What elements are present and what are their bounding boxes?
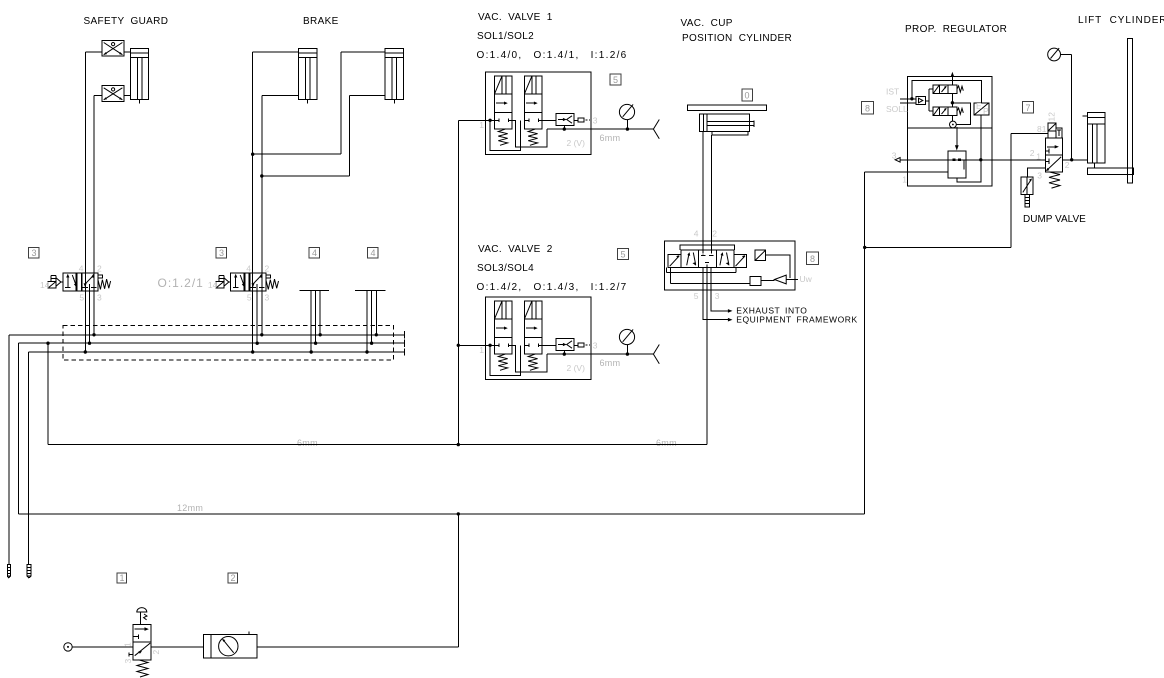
wire sensor to amplifier (766, 255, 790, 278)
hose break chevron (653, 120, 659, 139)
nozzle circle (950, 121, 957, 128)
pressure gauge (lift) (1048, 48, 1061, 61)
dump valve (variable restrictor) (1021, 177, 1033, 195)
exhaust arrow port 3 (895, 158, 900, 163)
valve right position arrows (720, 252, 729, 266)
svg-text:Uw: Uw (800, 274, 813, 284)
wire port 1 feed (458, 119, 494, 121)
signal amplifier triangle (774, 275, 786, 284)
wire bypass to valve B (490, 120, 521, 150)
wire 6mm branch line (48, 343, 707, 444)
signal converter square (750, 277, 761, 286)
wire safety guard port 4 (85, 52, 130, 352)
svg-text:3: 3 (1037, 170, 1042, 180)
svg-text:2: 2 (1065, 160, 1070, 170)
bus line 3 (bottom exhaust rail) (29, 348, 405, 355)
item box 7 (lift valve) (1023, 102, 1034, 114)
wire valve to lift cylinder (1063, 159, 1088, 161)
svg-text:3: 3 (123, 659, 133, 664)
flow control valve (safety guard top) (102, 40, 124, 56)
junction brake port4 (251, 153, 254, 156)
wire amplifier links (667, 268, 798, 284)
svg-text:5: 5 (79, 292, 84, 302)
wire IST input (900, 98, 916, 100)
wire pilot line to lift valve (865, 134, 1048, 248)
svg-text:O:1.4/0, O:1.4/1, I:1.2/6: O:1.4/0, O:1.4/1, I:1.2/6 (477, 50, 628, 61)
wire pilot to nozzle (952, 103, 970, 125)
pilot valve lower (933, 107, 963, 116)
junctions bus2 (46, 342, 373, 345)
wire E/P feedback loop (957, 115, 981, 182)
svg-text:O:1.2/1: O:1.2/1 (158, 276, 204, 290)
svg-text:1: 1 (120, 573, 125, 583)
svg-text:7: 7 (1026, 103, 1031, 113)
wire riser to vac valves (457, 120, 459, 444)
svg-text:2: 2 (231, 573, 236, 583)
svg-text:VAC. VALVE 2: VAC. VALVE 2 (478, 244, 553, 255)
wire bus1 left drop to silencer (8, 335, 10, 565)
svg-text:1: 1 (902, 174, 907, 184)
check throttle valve (542, 114, 578, 130)
svg-text:3: 3 (32, 248, 37, 258)
cylinder (brake right) (385, 48, 403, 103)
pilot supply bar (680, 245, 735, 250)
vacuum cup plate (688, 105, 767, 111)
junction brake port2 (260, 174, 263, 177)
wire brake port 2 branch (262, 96, 385, 335)
manifold dashed enclosure (63, 326, 394, 361)
wire port 1 to 6mm line (706, 268, 708, 445)
svg-text:SOLL: SOLL (886, 104, 908, 114)
port labels item1 (123, 642, 162, 664)
wire lower pilot down (951, 116, 953, 122)
wire amp to pilot valves (925, 89, 933, 111)
filter regulator unit (item 2) (204, 631, 257, 658)
svg-text:LIFT CYLINDER: LIFT CYLINDER (1078, 15, 1164, 26)
lift cylinder (1083, 113, 1106, 168)
wire between pilot valves (951, 94, 953, 108)
lift bracket (1088, 168, 1134, 175)
svg-text:6mm: 6mm (656, 438, 677, 448)
svg-text:SOL3/SOL4: SOL3/SOL4 (477, 263, 534, 274)
wire SOLL input (900, 102, 916, 104)
wire regulated output (900, 159, 1046, 161)
svg-text:4: 4 (246, 264, 251, 274)
bus line 1 (top exhaust rail) (9, 331, 405, 338)
svg-text:3: 3 (593, 115, 598, 125)
wire filter to supply riser (257, 514, 458, 647)
svg-text:1: 1 (123, 642, 133, 647)
svg-text:5: 5 (694, 291, 699, 301)
junction 6mm riser (457, 443, 460, 446)
junction pilot mid (951, 101, 954, 104)
svg-text:4: 4 (694, 228, 699, 238)
flow control valve (safety guard bottom) (102, 86, 124, 102)
wire safety guard port 2 (94, 96, 130, 335)
junction port 1 (488, 119, 491, 122)
svg-text:3: 3 (219, 248, 224, 258)
wire V2 port1 to bus2 (256, 284, 258, 343)
svg-text:2: 2 (97, 264, 102, 274)
silencer (right) (27, 564, 31, 578)
shutoff valve 3/2 (item 1) (129, 625, 151, 660)
svg-text:2: 2 (265, 264, 270, 274)
svg-text:8: 8 (865, 104, 870, 114)
lift valve 3/2 (item 7) (1046, 138, 1063, 172)
svg-text:E: E (976, 101, 982, 111)
item box 1 (117, 573, 127, 583)
svg-text:4: 4 (371, 248, 376, 258)
svg-text:IST: IST (886, 87, 899, 97)
svg-text:2: 2 (151, 650, 161, 655)
item box 2 (228, 573, 238, 583)
wire valve to filter regulator (151, 646, 203, 648)
svg-text:3: 3 (97, 292, 102, 302)
E/P converter square (974, 101, 989, 116)
junction lift feed (1070, 158, 1073, 161)
dump valve silencer (1025, 195, 1030, 207)
solenoid cartridge valve B (524, 76, 542, 146)
svg-text:8: 8 (810, 254, 815, 264)
item box 3 (safety guard valve) (29, 248, 40, 259)
quick exhaust manifold stub (item 4 second) (355, 291, 386, 353)
vacuum gauge (619, 104, 634, 129)
wire source to shutoff valve (72, 646, 133, 648)
wire cylinder port A down (702, 132, 704, 250)
quick exhaust manifold stub (item 4 first) (300, 291, 329, 353)
svg-text:3: 3 (265, 292, 270, 302)
svg-text:SOL1/SOL2: SOL1/SOL2 (477, 31, 534, 42)
svg-text:3: 3 (892, 150, 897, 160)
svg-text:BRAKE: BRAKE (303, 16, 339, 27)
svg-text:DUMP VALVE: DUMP VALVE (1023, 214, 1086, 225)
exhaust arrow up (951, 72, 955, 85)
silencer (left) (7, 564, 10, 578)
wire V1 port1 to bus2 (89, 284, 91, 343)
wire vacuum output 2(V) (547, 128, 653, 130)
svg-text:VAC. VALVE 1: VAC. VALVE 1 (478, 12, 553, 23)
svg-text:4: 4 (79, 264, 84, 274)
item box 4 (first) (309, 248, 320, 259)
valve 5/2 V2 (brake, item 3) (216, 273, 278, 291)
junction IST (910, 97, 913, 100)
svg-text:2: 2 (1030, 148, 1035, 158)
svg-text:1: 1 (1036, 152, 1041, 162)
svg-text:4: 4 (312, 248, 317, 258)
wire 12mm riser to regulator (865, 172, 948, 514)
svg-text:P: P (983, 106, 989, 116)
junction pilot branch (863, 246, 866, 249)
lift valve spring (1049, 172, 1060, 188)
svg-text:POSITION CYLINDER: POSITION CYLINDER (682, 33, 792, 44)
exhaust silencer port 3 (578, 118, 590, 122)
svg-text:1: 1 (479, 120, 484, 130)
svg-text:12: 12 (1047, 112, 1057, 122)
vacuum valve unit 1 (item 5, SOL1/SOL2) (458, 72, 659, 155)
junction vac valve 2 feed (457, 344, 460, 347)
port labels valve V1 (40, 264, 102, 303)
arrow equipment framework (728, 318, 733, 322)
arrow exhaust into (728, 309, 733, 313)
junction output tee (563, 127, 566, 130)
svg-text:81: 81 (1037, 124, 1047, 134)
wire bus2 to 12mm supply line (18, 343, 864, 514)
svg-text:O:1.4/2, O:1.4/3, I:1.2/7: O:1.4/2, O:1.4/3, I:1.2/7 (477, 282, 628, 293)
item box 4 (second) (368, 248, 379, 259)
valve 5/3 body (681, 250, 734, 268)
lift guide plate (1128, 39, 1133, 183)
item box 0 (vac cup) (742, 89, 753, 101)
junction gauge stem (626, 127, 629, 130)
wire port 5 to exhaust arrow (703, 268, 729, 320)
junctions bus3 (84, 350, 369, 353)
item box 8 (prop regulator) (862, 102, 874, 115)
svg-text:VAC. CUP: VAC. CUP (681, 18, 733, 29)
junctions bus1 (92, 333, 378, 336)
svg-text:14: 14 (40, 280, 50, 290)
svg-text:14: 14 (208, 280, 218, 290)
lift valve solenoid (1048, 123, 1062, 138)
amplifier box (916, 97, 925, 105)
junction 12mm riser (457, 512, 460, 515)
solenoid cartridge valve A (495, 76, 513, 146)
svg-text:EQUIPMENT FRAMEWORK: EQUIPMENT FRAMEWORK (736, 314, 857, 324)
wire bus3 left drop to silencer (28, 352, 30, 564)
svg-text:6mm: 6mm (297, 438, 318, 448)
valve centre blocked ports (701, 250, 714, 268)
svg-text:5: 5 (621, 250, 626, 260)
vacuum valve unit 2 (item 5, SOL3/SOL4) (458, 297, 659, 380)
pilot valve upper (933, 85, 963, 94)
svg-text:12mm: 12mm (177, 503, 203, 513)
bus line 2 (supply rail) (18, 340, 404, 347)
wire cylinder port B down (711, 135, 713, 250)
shutoff valve lever (137, 608, 147, 625)
wire nozzle to regulator body (955, 127, 959, 151)
port labels valve V2 (208, 264, 270, 303)
pilot box left (668, 254, 681, 267)
item box 3 (brake valve) (216, 248, 227, 259)
svg-text:SAFETY GUARD: SAFETY GUARD (84, 16, 169, 27)
wire port 3 to dump valve (1028, 168, 1046, 177)
svg-text:0: 0 (745, 91, 750, 101)
svg-text:5: 5 (613, 75, 618, 85)
svg-text:6mm: 6mm (600, 133, 621, 143)
item box 5 (vac valve 2) (618, 249, 629, 260)
wire gauge to cylinder line (1061, 55, 1072, 160)
valve 5/3 assembly box (item 8) (664, 241, 795, 290)
svg-text:2: 2 (712, 228, 717, 238)
wire brake port 4 branch (253, 52, 385, 352)
valve left position arrows (687, 252, 696, 266)
item box 8 (vac cup valve) (807, 252, 819, 265)
wire port 3 to exhaust arrow (711, 268, 729, 311)
svg-text:5: 5 (247, 292, 252, 302)
junction E/P feedback (979, 158, 982, 161)
pressure sensor square (755, 250, 765, 260)
svg-text:PROP. REGULATOR: PROP. REGULATOR (905, 24, 1007, 35)
wire internal top loop (912, 81, 981, 103)
wire valve A output down (512, 120, 547, 147)
svg-text:3: 3 (715, 291, 720, 301)
cylinder (brake left) (298, 48, 316, 103)
item box 5 (vac valve 1) (610, 74, 621, 85)
regulator main body (948, 151, 966, 178)
cylinder (safety guard) (130, 48, 148, 103)
svg-text:2 (V): 2 (V) (567, 138, 586, 148)
vac cup position cylinder (699, 114, 754, 135)
air source (64, 643, 72, 651)
pilot box right (734, 254, 746, 267)
shutoff valve spring (137, 660, 148, 677)
valve 5/2 V1 (safety guard, item 3) (48, 273, 110, 291)
prop regulator enclosure (907, 77, 992, 187)
